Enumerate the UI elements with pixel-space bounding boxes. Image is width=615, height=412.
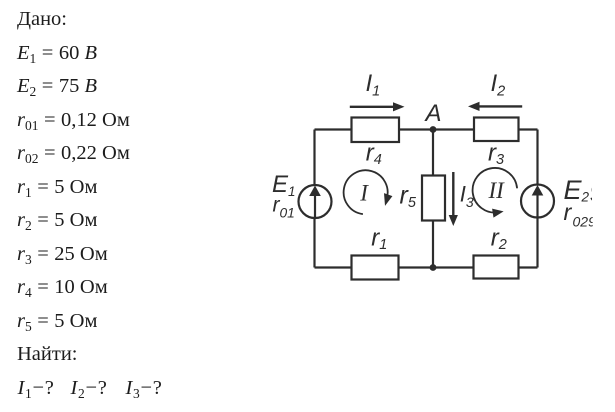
svg-text:r4: r4 bbox=[366, 139, 382, 168]
svg-text:I1: I1 bbox=[366, 70, 381, 100]
svg-text:r1: r1 bbox=[371, 224, 387, 253]
svg-text:r5: r5 bbox=[400, 182, 417, 212]
svg-text:r3: r3 bbox=[488, 139, 504, 168]
svg-text:II: II bbox=[488, 178, 506, 203]
svg-text:r2: r2 bbox=[491, 224, 507, 253]
svg-text:A: A bbox=[424, 100, 442, 127]
svg-text:I: I bbox=[359, 180, 369, 205]
svg-text:I3: I3 bbox=[460, 182, 474, 211]
svg-text:I2: I2 bbox=[491, 70, 506, 100]
